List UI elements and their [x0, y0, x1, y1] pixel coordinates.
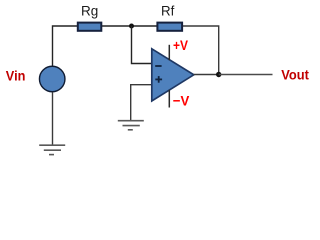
label -V [173, 93, 190, 109]
op-amp U1 (triangle) [152, 49, 194, 101]
wire: non-inverting input to ground drop [131, 85, 152, 121]
label Rf [161, 3, 175, 18]
svg-text:Rf: Rf [161, 3, 175, 18]
wire: Rg to node A [102, 25, 132, 27]
wire: source to ground [52, 92, 54, 145]
+V supply stub [168, 45, 170, 60]
ground (middle, under non-inverting input) [118, 121, 144, 130]
output node junction dot [216, 72, 221, 77]
label Vout [281, 67, 309, 83]
wire: op-amp output to output node [194, 74, 219, 76]
svg-text:+V: +V [173, 37, 189, 53]
wire: output node to Vout [219, 74, 273, 76]
svg-text:Rg: Rg [81, 3, 98, 18]
resistor Rg [78, 23, 102, 31]
wire: node A down and right to inverting input [132, 26, 152, 64]
ground (left, under Vin source) [39, 145, 65, 154]
source Vin (circle) [39, 66, 64, 92]
label +V [173, 37, 189, 53]
label Rg [81, 3, 98, 18]
op-amp non-inverting pin mark (+) [155, 76, 162, 83]
svg-text:−V: −V [173, 93, 190, 109]
op-amp inverting pin mark (-) [155, 65, 161, 67]
wire: top-left corner to Rg [53, 26, 78, 66]
node A junction dot (Rg/Rf/inverting input) [129, 24, 134, 29]
wire: Rf to top-right corner down to output node [183, 26, 219, 75]
label Vin [6, 68, 26, 84]
svg-text:Vout: Vout [281, 67, 309, 83]
wire: node A to Rf [132, 25, 158, 27]
svg-text:Vin: Vin [6, 68, 26, 84]
-V supply stub [168, 90, 170, 108]
resistor Rf [157, 23, 182, 31]
